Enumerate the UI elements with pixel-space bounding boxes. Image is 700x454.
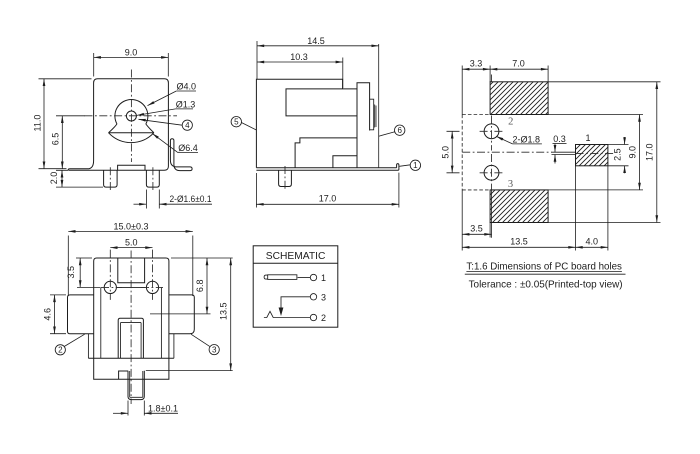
svg-text:Ø1.3: Ø1.3 [176,99,196,109]
centerline horizontal [85,115,178,117]
hole crosshairs [480,75,504,190]
schematic title divider [253,262,338,264]
left mounting wing [68,161,97,171]
dim 2-Ø1.6 arrows and shelf [134,203,147,205]
svg-text:17.0: 17.0 [319,194,337,204]
svg-text:3: 3 [321,292,326,302]
hole right [146,281,158,293]
pad1 extensions for 2.5 [608,145,629,166]
svg-text:3.5: 3.5 [470,224,483,234]
dim 3.3 [462,68,490,70]
dim 13.5 extensions [146,258,233,371]
svg-text:4.6: 4.6 [43,308,53,321]
wire pin 2 with spring bump [264,311,310,317]
svg-text:5: 5 [234,118,239,127]
dim 4.0 [576,246,608,248]
pin 2 terminal [310,314,316,320]
dim 4.6 extensions [50,295,66,334]
rear thin plate edge [378,44,380,168]
svg-text:1: 1 [585,133,590,143]
svg-text:2-Ø1.8: 2-Ø1.8 [513,134,541,144]
svg-text:4.0: 4.0 [585,237,598,247]
dim 6.8 line [206,258,208,314]
rear contact spring [375,105,376,128]
svg-text:5.0: 5.0 [125,237,138,247]
leader Ø1.3 [137,109,176,116]
slot inner lines [121,323,142,359]
left extensions [462,66,548,251]
svg-text:7.0: 7.0 [512,59,525,69]
svg-text:15.0±0.3: 15.0±0.3 [114,221,149,231]
wire pin 3 with contact arm [281,297,310,308]
jack bushing circle Ø4.0 [115,99,148,124]
right mounting wing [170,139,192,171]
pad 3 hatched [490,190,548,223]
holes connecting line [116,286,145,288]
svg-text:3.5: 3.5 [66,266,76,279]
svg-text:2.5: 2.5 [613,148,623,161]
dim 6.8 extensions [150,313,211,315]
dim 3.5 bottom extension [77,286,101,288]
svg-text:2: 2 [58,346,63,355]
hole left [104,281,116,293]
svg-text:6: 6 [397,126,402,135]
dim 10.3 extension [342,58,344,89]
svg-text:Ø6.4: Ø6.4 [178,143,198,153]
left tab [68,295,94,334]
center pin circle Ø1.3 [126,111,136,121]
bottom flange [88,358,173,379]
dim 4.6 line [54,295,56,334]
centerline vertical [130,70,132,163]
body outline [256,79,342,168]
leader Ø6.4 [152,133,178,152]
dim 6.5 extension [56,115,85,117]
base bracket top line [256,167,396,169]
body step right [333,156,357,168]
dim 2-Ø1.6 extension lines [146,190,159,209]
pin inner lines [130,371,143,397]
leader 2-Ø1.8 [496,136,512,144]
center vertical axis [130,251,132,405]
base bracket bottom line and lip [256,164,399,171]
dim 2.0 extension [56,170,103,187]
balloon 2 [55,345,65,355]
left pin centerline [109,167,111,192]
svg-text:3: 3 [508,179,513,190]
hole 2 [484,124,499,139]
dim 11.0 extension lines [39,79,92,169]
balloon 6 [395,125,405,135]
svg-text:0.3: 0.3 [553,134,566,144]
body inner steps [295,138,357,168]
center top recess rect [118,258,145,283]
wire to pin 1 [298,277,311,279]
dim 9.0 line [94,56,169,58]
dim 13.5 line [230,258,232,371]
shell side edges below tabs [88,334,173,358]
dim 17.0 extensions [256,173,399,208]
pin 3 terminal [310,294,316,300]
center pin barrel symbol [268,275,297,280]
dim 5.0 [451,131,453,173]
right pin centerline [152,167,154,192]
slot edge lines 0.3 apart [552,152,576,154]
dim 7.0 [490,68,548,70]
dim 9.0 extension lines [94,53,169,77]
svg-text:1: 1 [413,161,418,170]
svg-text:1.8±0.1: 1.8±0.1 [148,404,178,414]
svg-text:5.0: 5.0 [441,146,451,159]
right solder pin [146,170,159,187]
dim 9.0 vertical [639,115,641,190]
dim 1.8 extensions [128,401,144,416]
svg-text:2: 2 [321,313,326,323]
svg-text:1: 1 [321,273,326,283]
pad 2 hatched [490,82,548,115]
dim 0.3 shelf [553,143,567,145]
hole crosshairs horizontal [101,286,163,288]
dim 3.5 [462,233,491,235]
pin 1 terminal [310,274,316,280]
flange notch [119,371,128,379]
leader Ø4.0 [148,91,177,106]
svg-text:9.0: 9.0 [125,48,138,58]
svg-text:14.5: 14.5 [307,36,325,46]
dim 17.0 line [256,203,399,205]
balloon 1 [410,160,420,170]
hole crosshairs vertical [110,250,152,300]
svg-text:11.0: 11.0 [33,115,43,132]
dim 14.5 line [257,45,379,47]
dim 1.8 arrows [113,412,128,414]
pad1 extensions for 4.0 [576,166,608,251]
balloon 5 [231,117,241,127]
svg-text:3.3: 3.3 [470,59,483,69]
pad 1 hatched [576,145,608,166]
dim 6.5 line [61,116,63,169]
svg-text:Ø4.0: Ø4.0 [177,82,197,92]
skirt flare right [146,124,154,133]
center pin [128,371,144,400]
contact arrow [279,308,284,317]
svg-text:2-Ø1.6±0.1: 2-Ø1.6±0.1 [170,194,212,204]
side pin centerline [284,166,286,191]
svg-text:Tolerance : ±0.05(Printed-top: Tolerance : ±0.05(Printed-top view) [469,278,623,290]
dim 17.0 vertical [656,82,658,223]
side pin [279,170,292,186]
svg-text:6.8: 6.8 [195,280,205,293]
svg-text:T:1.6 Dimensions of PC board h: T:1.6 Dimensions of PC board holes [466,260,622,272]
rear flange plate [357,83,370,168]
svg-text:2: 2 [508,117,513,128]
dim 2.5 arrows outside [624,137,626,145]
central slot [118,318,143,358]
left solder pin [104,170,118,187]
hole3 center extension for 3.5 [491,190,493,238]
svg-text:13.5: 13.5 [510,237,528,247]
dim 15.0 extensions [68,236,193,297]
svg-text:2.0: 2.0 [49,172,59,185]
svg-text:9.0: 9.0 [628,146,638,159]
balloon 3 [209,345,219,355]
dim 5.0 line [110,247,152,249]
schematic frame [253,246,338,327]
svg-text:6.5: 6.5 [51,133,61,146]
skirt chord line [109,132,154,134]
dim 3.5 line [79,258,81,287]
body outline [94,258,169,358]
svg-text:17.0: 17.0 [645,143,655,161]
inner side walls [101,288,162,359]
dim 11.0 line [43,79,45,169]
extension lines right side [490,82,660,223]
5.0 extensions [447,131,460,173]
barrel recess rectangle [286,89,357,116]
main centerline [462,152,613,153]
note underline double [465,272,626,275]
dim 0.3 arrows [554,144,556,153]
rear contact bracket [370,99,374,130]
skirt flare left [109,124,117,133]
body shell outline [94,79,169,171]
right tab [169,295,194,334]
dim 14.5 extensions [256,41,258,79]
dim 3.5 extension [76,257,92,259]
hole 3 [484,165,499,180]
dim 13.5 [462,246,575,248]
dim 2.0 line [61,170,63,187]
balloon 4 [182,120,192,130]
dim 15.0 line [68,230,193,232]
svg-text:SCHEMATIC: SCHEMATIC [266,250,326,262]
svg-text:10.3: 10.3 [290,52,308,62]
footprint outline dashed left [462,115,490,190]
center bump on bottom edge [118,165,145,170]
skirt bottom arc Ø6.4 [109,133,154,143]
svg-text:13.5: 13.5 [219,302,229,320]
svg-text:4: 4 [185,121,190,130]
dim 10.3 line [257,61,343,63]
svg-text:3: 3 [212,345,217,354]
